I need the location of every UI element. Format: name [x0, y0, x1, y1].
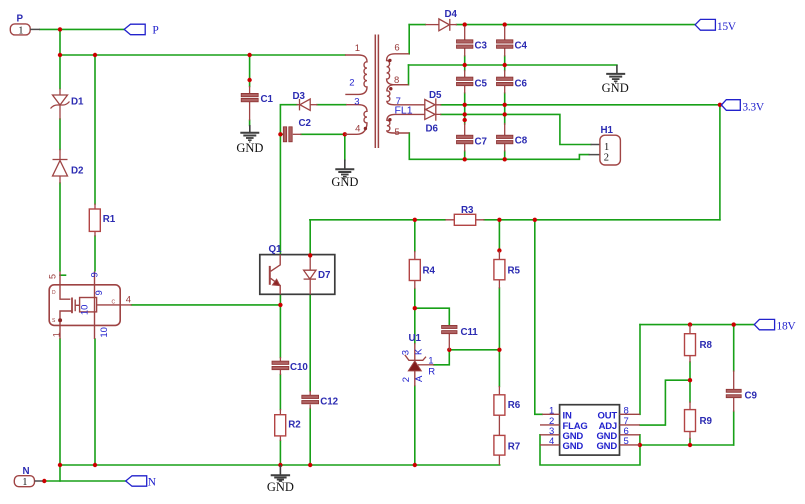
svg-text:1: 1 [22, 477, 27, 488]
svg-text:1: 1 [52, 332, 62, 337]
capacitor C8 [497, 123, 528, 152]
capacitor C4 [497, 26, 528, 57]
wire 15V rail [409, 24, 695, 26]
svg-text:C3: C3 [475, 41, 488, 52]
wire IC1 pin4 to Q1 emitter node [132, 304, 281, 306]
svg-text:D2: D2 [71, 166, 84, 177]
svg-text:1: 1 [428, 355, 433, 366]
svg-text:C: C [112, 300, 116, 306]
wire D7 to C12 to rail [309, 294, 311, 465]
svg-text:R3: R3 [461, 205, 474, 216]
svg-text:N: N [23, 466, 30, 477]
wire D6 rail to H1 pin1 [441, 114, 591, 144]
wire U1 ref to C11 bottom [434, 350, 450, 365]
ground GND under transformer pin4 [331, 160, 358, 189]
svg-text:C2: C2 [299, 118, 312, 129]
svg-text:FL1: FL1 [395, 104, 413, 116]
node Q1 emitter junction [278, 303, 282, 307]
svg-text:C10: C10 [290, 362, 308, 373]
wire C11 jog [415, 308, 450, 324]
svg-text:3: 3 [401, 350, 412, 355]
svg-text:5: 5 [47, 274, 57, 279]
svg-text:D7: D7 [318, 270, 331, 281]
transformer T1 [345, 35, 426, 149]
svg-text:C5: C5 [475, 79, 488, 90]
shunt regulator U1 [401, 333, 436, 386]
transformer primary winding 1-2 [345, 55, 367, 94]
wire IC1 pin5 tick [60, 274, 66, 276]
svg-text:C11: C11 [461, 327, 479, 338]
wire 18V return rail [640, 444, 734, 446]
svg-text:C9: C9 [745, 391, 758, 402]
wire C2 branch [280, 133, 344, 135]
svg-text:U1: U1 [409, 333, 422, 344]
svg-text:3: 3 [354, 97, 359, 108]
diode D3 [293, 91, 318, 110]
node R4 U1 junction [413, 306, 417, 310]
wire 3.3V rail [441, 104, 723, 106]
svg-text:GND: GND [236, 141, 263, 155]
svg-text:C7: C7 [475, 137, 488, 148]
svg-text:2: 2 [401, 377, 412, 382]
svg-text:D5: D5 [429, 90, 442, 101]
svg-text:R4: R4 [423, 266, 436, 277]
svg-text:1: 1 [355, 43, 360, 54]
wire transformer pin6 riser [408, 25, 410, 54]
node D7 top junction redraw [308, 253, 312, 257]
svg-text:8: 8 [624, 405, 629, 416]
wire gnd return rail [409, 64, 617, 66]
capacitor C5 [457, 70, 488, 94]
svg-text:9: 9 [94, 290, 105, 295]
resistor R5 [494, 251, 521, 289]
svg-text:K: K [414, 348, 425, 355]
svg-text:D6: D6 [426, 123, 439, 134]
svg-text:5: 5 [624, 436, 629, 447]
wire D3 node vertical to Q1 collector [280, 105, 346, 255]
svg-text:P: P [152, 25, 158, 37]
resistor R9 [685, 402, 713, 440]
svg-text:GND: GND [563, 441, 584, 452]
transformer core [375, 35, 378, 149]
wire riser to 3.3V rail [719, 105, 721, 220]
resistor R8 [685, 325, 713, 363]
capacitor C10 [272, 357, 308, 375]
svg-text:GND: GND [602, 81, 629, 95]
transformer secondary winding 8-7 [387, 85, 425, 105]
diode D7 inside Q1 [304, 255, 331, 294]
svg-text:10: 10 [99, 327, 110, 338]
resistor R6 [494, 386, 521, 435]
svg-text:C8: C8 [515, 135, 528, 146]
diode D1 zener [51, 89, 84, 120]
flag 18V [754, 319, 796, 332]
capacitor C6 [497, 70, 528, 94]
dual diode D5 D6 [425, 90, 442, 134]
wire cap column links [465, 105, 505, 124]
node C1 stub junction [247, 78, 251, 82]
capacitor C11 [442, 325, 479, 350]
wire C9 column [733, 325, 735, 445]
wire R1 column [94, 55, 96, 271]
svg-text:A: A [414, 375, 425, 382]
flag 3.3V [721, 100, 764, 114]
svg-text:10: 10 [80, 305, 91, 316]
svg-text:1: 1 [604, 142, 609, 153]
wire transformer pin5 drop and bottom secondary rail [409, 133, 588, 159]
node P junction [58, 27, 62, 31]
connector H1 [589, 125, 621, 165]
svg-text:R9: R9 [700, 416, 713, 427]
wire R9 column [689, 380, 691, 445]
svg-text:4: 4 [126, 295, 131, 306]
svg-text:3.3V: 3.3V [742, 101, 764, 113]
resistor R7 [494, 435, 521, 465]
svg-text:R: R [428, 366, 435, 377]
wire IC2 pin6 to pin5 node [639, 435, 641, 445]
svg-text:D4: D4 [445, 9, 458, 20]
node R8 R9 junction [688, 378, 692, 382]
svg-text:R2: R2 [288, 419, 301, 430]
ground GND bottom center [267, 465, 294, 494]
wire transformer pin8 riser [408, 65, 410, 85]
wire R5 R6 column [498, 220, 500, 387]
transformer primary winding 3-4 [345, 105, 367, 135]
node gnd return junctions [463, 63, 467, 67]
pin header P [10, 14, 40, 37]
resistor R4 [409, 251, 435, 289]
svg-text:P: P [17, 14, 24, 25]
node N pin junction [42, 479, 46, 483]
ground GND under C1 [236, 125, 263, 155]
wire C3 C4 to gnd rail [465, 56, 505, 65]
ground GND top right [602, 65, 629, 95]
svg-text:D1: D1 [71, 97, 84, 108]
svg-text:6: 6 [394, 43, 399, 54]
svg-text:C6: C6 [515, 79, 528, 90]
node 3.3V rail junctions [463, 103, 467, 107]
wire D7 top to feedback rail [309, 220, 311, 256]
svg-text:1: 1 [549, 405, 554, 416]
wire R4 column [414, 220, 416, 344]
transformer phase dots [364, 127, 367, 130]
svg-text:Q1: Q1 [269, 244, 283, 255]
svg-text:R1: R1 [103, 214, 116, 225]
wire C10 to R2 [279, 375, 281, 410]
node feedback rail junctions [413, 218, 417, 222]
optocoupler Q1 [260, 244, 335, 295]
transformer secondary winding 6-8 [387, 54, 410, 85]
flag P [124, 24, 158, 37]
capacitor C9 [726, 371, 757, 412]
svg-text:C12: C12 [320, 396, 338, 407]
resistor R2 [275, 409, 302, 441]
transformer secondary winding fl1-5 [387, 114, 425, 133]
svg-text:1: 1 [18, 25, 23, 36]
capacitor C3 [457, 26, 488, 57]
wire feedback rail to R3 [310, 219, 445, 221]
svg-text:2: 2 [604, 152, 609, 163]
wire N pin to flag N [44, 480, 125, 482]
svg-text:GND: GND [331, 175, 358, 189]
svg-text:4: 4 [549, 436, 554, 447]
diode D2 [53, 149, 84, 184]
capacitor C1 [241, 86, 273, 121]
node bottom rail junctions [58, 463, 62, 467]
node C2 left junction [278, 132, 282, 136]
node primary rail junctions [58, 53, 62, 57]
svg-text:15V: 15V [717, 21, 737, 33]
svg-text:9: 9 [89, 272, 100, 277]
wire transformer pin4 gnd drop [344, 134, 346, 160]
svg-text:C4: C4 [515, 41, 528, 52]
wire bottom ground rail [60, 464, 500, 466]
svg-text:R5: R5 [508, 266, 521, 277]
pin header N [14, 466, 42, 488]
wire C5 C6 verticals [465, 65, 505, 105]
svg-text:R7: R7 [508, 442, 521, 453]
svg-text:IN: IN [563, 411, 572, 422]
svg-text:GND: GND [596, 441, 617, 452]
wire P pin to flag P [40, 28, 124, 30]
svg-text:H1: H1 [601, 125, 614, 136]
svg-text:C1: C1 [261, 94, 274, 105]
svg-text:GND: GND [267, 480, 294, 494]
wire C1 drop [249, 55, 251, 126]
node 18V rail junctions [688, 322, 692, 326]
node secondary bottom rail junctions [463, 157, 467, 161]
flag N [126, 476, 157, 489]
svg-text:18V: 18V [777, 321, 797, 333]
regulator IC2 [540, 405, 640, 455]
wire R8 bottom to node [689, 362, 691, 380]
svg-text:D: D [52, 290, 56, 296]
svg-text:R8: R8 [700, 340, 713, 351]
wire 18V rail [640, 324, 754, 326]
diode D4 [425, 9, 457, 31]
wire OUT riser [639, 325, 641, 415]
svg-text:R6: R6 [508, 400, 521, 411]
node transformer pin4 junction [343, 132, 347, 136]
IC1 controller with mosfet [47, 272, 131, 340]
wire D1 D2 column [59, 55, 61, 271]
wire primary top rail to transformer pin 1 [60, 54, 345, 56]
svg-text:N: N [148, 476, 157, 488]
wire C7 C8 bottoms [465, 151, 505, 159]
node R5 stub junction [497, 248, 501, 252]
svg-text:4: 4 [355, 124, 360, 135]
svg-text:2: 2 [349, 77, 354, 88]
wire ADJ to divider node [640, 380, 690, 425]
resistor R1 [89, 204, 115, 237]
capacitor C2 [283, 118, 311, 142]
node D6 rail junctions [463, 112, 467, 116]
svg-text:OUT: OUT [598, 411, 618, 422]
svg-text:D3: D3 [293, 91, 306, 102]
wire IC2 gnd loop [540, 435, 640, 465]
wire P drop to primary rail [59, 29, 61, 55]
wire R2 to rail [279, 441, 281, 466]
wire R3 to 3.3V riser [484, 219, 720, 221]
flag 15V [695, 19, 737, 33]
node 15V rail junctions [463, 22, 467, 26]
wire IC1 pin1 pin10 to bottom rail [60, 339, 95, 465]
resistor R3 [445, 205, 484, 226]
wire C11 bottom to R5 R6 node [449, 349, 499, 351]
wire IN riser [535, 220, 542, 414]
node D7 top junction [308, 253, 312, 257]
capacitor C12 [302, 391, 339, 409]
node 18V return junctions [688, 443, 692, 447]
node C11 bottom junctions [447, 348, 451, 352]
wire U1 anode to rail [414, 386, 416, 465]
capacitor C7 [457, 123, 488, 152]
wire N drop [59, 465, 61, 481]
wire Q1 emitter to C10 [279, 294, 281, 357]
